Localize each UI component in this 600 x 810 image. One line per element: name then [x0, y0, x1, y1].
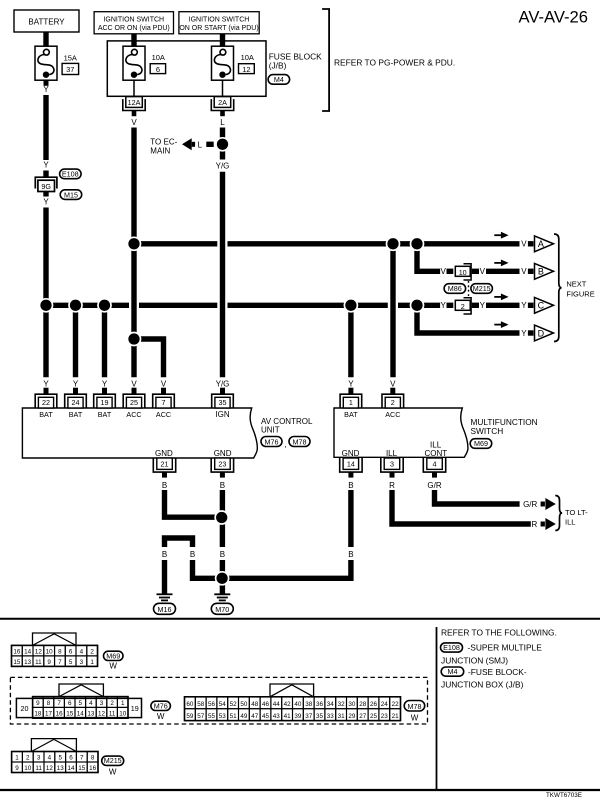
svg-text:Y: Y: [43, 198, 49, 207]
svg-text:2: 2: [90, 648, 94, 655]
svg-text:M78: M78: [408, 702, 422, 711]
svg-text:12: 12: [35, 648, 43, 655]
svg-text:BATTERY: BATTERY: [28, 17, 65, 26]
svg-text:41: 41: [284, 713, 292, 720]
svg-text:2: 2: [110, 700, 114, 707]
svg-text:Y: Y: [441, 301, 447, 310]
svg-text:M69: M69: [474, 439, 488, 448]
svg-text:2: 2: [461, 302, 465, 311]
svg-text:9: 9: [36, 700, 40, 707]
svg-text:44: 44: [273, 701, 281, 708]
svg-text:L: L: [198, 141, 203, 150]
svg-text:46: 46: [262, 701, 270, 708]
svg-text:57: 57: [197, 713, 205, 720]
svg-text:42: 42: [284, 701, 292, 708]
svg-text:NEXT: NEXT: [566, 280, 586, 289]
svg-text:B: B: [162, 550, 167, 559]
svg-text:16: 16: [89, 765, 97, 772]
svg-text:ACC: ACC: [126, 410, 141, 419]
svg-text:16: 16: [56, 711, 64, 718]
svg-text:M4: M4: [448, 667, 458, 676]
svg-text:IGNITION SWITCH: IGNITION SWITCH: [189, 17, 250, 24]
svg-text:W: W: [157, 712, 165, 721]
svg-text:FIGURE: FIGURE: [566, 289, 594, 298]
svg-text:2: 2: [391, 398, 395, 407]
svg-text:39: 39: [294, 713, 302, 720]
svg-text:W: W: [109, 768, 117, 777]
svg-text:22: 22: [392, 701, 400, 708]
svg-text:Y: Y: [43, 85, 49, 94]
svg-text:27: 27: [359, 713, 367, 720]
svg-text:V: V: [161, 379, 167, 388]
svg-text:2: 2: [26, 754, 30, 761]
svg-text:BAT: BAT: [98, 410, 112, 419]
svg-text:ACC: ACC: [156, 410, 171, 419]
svg-text:ACC OR ON (via PDU): ACC OR ON (via PDU): [98, 25, 170, 32]
svg-text:20: 20: [21, 704, 29, 713]
svg-text:12: 12: [46, 765, 54, 772]
svg-text:37: 37: [66, 65, 74, 74]
svg-text:M215: M215: [473, 284, 491, 293]
svg-text:4: 4: [80, 648, 84, 655]
svg-text:19: 19: [131, 704, 139, 713]
svg-text:40: 40: [294, 701, 302, 708]
svg-text:V: V: [390, 379, 396, 388]
svg-text:Y: Y: [43, 379, 49, 388]
svg-text:E108: E108: [443, 643, 460, 652]
svg-text:E108: E108: [62, 170, 79, 179]
svg-text:31: 31: [338, 713, 346, 720]
svg-text:55: 55: [208, 713, 216, 720]
svg-text:(J/B): (J/B): [269, 60, 287, 70]
svg-text:19: 19: [101, 398, 109, 407]
svg-text:B: B: [190, 550, 195, 559]
svg-text:18: 18: [34, 711, 42, 718]
svg-text:8: 8: [91, 754, 95, 761]
svg-text:32: 32: [338, 701, 346, 708]
svg-text:14: 14: [77, 711, 85, 718]
svg-text:8: 8: [58, 648, 62, 655]
svg-text:3: 3: [37, 754, 41, 761]
svg-text:14: 14: [67, 765, 75, 772]
svg-text:B: B: [538, 267, 544, 277]
svg-text:15: 15: [66, 711, 74, 718]
svg-text:R: R: [389, 481, 395, 490]
svg-text:W: W: [109, 662, 117, 671]
svg-text:IGN: IGN: [215, 410, 229, 419]
svg-text:1: 1: [121, 700, 125, 707]
svg-text:Y: Y: [348, 379, 354, 388]
svg-text:35: 35: [316, 713, 324, 720]
svg-text:5: 5: [69, 659, 73, 666]
svg-text:CONT: CONT: [424, 449, 447, 458]
svg-text:12A: 12A: [128, 98, 141, 107]
svg-text:Y: Y: [73, 379, 79, 388]
svg-text:7: 7: [57, 700, 61, 707]
svg-text:13: 13: [87, 711, 95, 718]
svg-text:V: V: [480, 267, 486, 276]
svg-text:BAT: BAT: [39, 410, 53, 419]
svg-text:13: 13: [24, 659, 32, 666]
svg-text:10: 10: [24, 765, 32, 772]
svg-text:48: 48: [251, 701, 259, 708]
svg-text:28: 28: [359, 701, 367, 708]
svg-text:3: 3: [80, 659, 84, 666]
svg-text:R: R: [532, 520, 538, 529]
svg-text:6: 6: [69, 754, 73, 761]
svg-text:M70: M70: [215, 605, 229, 614]
svg-text:M16: M16: [158, 605, 172, 614]
svg-text:M15: M15: [64, 190, 78, 199]
svg-text:IGNITION SWITCH: IGNITION SWITCH: [103, 17, 164, 24]
svg-text:9: 9: [15, 765, 19, 772]
svg-text:5: 5: [58, 754, 62, 761]
svg-text:REFER TO PG-POWER & PDU.: REFER TO PG-POWER & PDU.: [334, 58, 455, 68]
svg-text:5: 5: [79, 700, 83, 707]
svg-text:49: 49: [240, 713, 248, 720]
svg-text:V: V: [521, 267, 527, 276]
svg-text:30: 30: [348, 701, 356, 708]
svg-text:10A: 10A: [152, 53, 165, 62]
svg-text:7: 7: [58, 659, 62, 666]
svg-text:38: 38: [305, 701, 313, 708]
svg-text:V: V: [131, 118, 137, 127]
svg-text:10: 10: [46, 648, 54, 655]
svg-text:JUNCTION (SMJ): JUNCTION (SMJ): [441, 656, 508, 666]
svg-text:11: 11: [35, 765, 42, 772]
svg-text:V: V: [131, 379, 137, 388]
svg-text:3: 3: [100, 700, 104, 707]
svg-text:V: V: [521, 240, 527, 249]
svg-text:25: 25: [130, 398, 138, 407]
svg-text:W: W: [411, 714, 419, 723]
svg-text:59: 59: [186, 713, 194, 720]
svg-text:34: 34: [327, 701, 335, 708]
svg-text:21: 21: [392, 713, 400, 720]
svg-text:15: 15: [13, 659, 21, 666]
svg-text:ILL: ILL: [565, 517, 575, 526]
svg-text:26: 26: [370, 701, 378, 708]
svg-text:TKWT6703E: TKWT6703E: [546, 792, 582, 799]
svg-text:6: 6: [68, 700, 72, 707]
svg-text:GND: GND: [214, 449, 232, 458]
svg-text:-SUPER MULTIPLE: -SUPER MULTIPLE: [468, 643, 543, 653]
svg-text:Y: Y: [480, 301, 486, 310]
svg-text:10: 10: [119, 711, 127, 718]
svg-text:14: 14: [24, 648, 32, 655]
svg-text:13: 13: [57, 765, 65, 772]
svg-text:11: 11: [109, 711, 116, 718]
svg-text:M78: M78: [293, 437, 307, 446]
svg-text:35: 35: [219, 398, 227, 407]
svg-text:60: 60: [186, 701, 194, 708]
svg-text:B: B: [348, 550, 353, 559]
svg-text:7: 7: [80, 754, 84, 761]
svg-text:-FUSE BLOCK-: -FUSE BLOCK-: [468, 667, 527, 677]
svg-text:B: B: [348, 481, 353, 490]
svg-text:11: 11: [35, 659, 42, 666]
svg-text:TO LT-: TO LT-: [565, 508, 588, 517]
svg-text:AV-AV-26: AV-AV-26: [519, 8, 589, 27]
svg-text:M4: M4: [274, 75, 284, 84]
svg-text:BAT: BAT: [69, 410, 83, 419]
svg-text:10A: 10A: [241, 53, 254, 62]
svg-text:3: 3: [390, 460, 394, 469]
svg-text:58: 58: [197, 701, 205, 708]
svg-text:Y: Y: [43, 161, 49, 170]
svg-text:A: A: [538, 239, 544, 249]
svg-text:4: 4: [48, 754, 52, 761]
svg-text:21: 21: [161, 460, 169, 469]
svg-text:6: 6: [156, 65, 160, 74]
svg-text:REFER TO THE FOLLOWING.: REFER TO THE FOLLOWING.: [441, 628, 557, 638]
svg-text:50: 50: [240, 701, 248, 708]
svg-text:JUNCTION BOX (J/B): JUNCTION BOX (J/B): [441, 680, 524, 690]
svg-text:B: B: [220, 550, 225, 559]
svg-text:B: B: [162, 481, 167, 490]
svg-text:15: 15: [78, 765, 86, 772]
svg-text:8: 8: [47, 700, 51, 707]
svg-text:1: 1: [349, 398, 353, 407]
svg-text:V: V: [441, 267, 447, 276]
svg-text:M86: M86: [448, 284, 462, 293]
svg-text:G/R: G/R: [523, 500, 537, 509]
svg-text:SWITCH: SWITCH: [471, 426, 504, 436]
svg-text:52: 52: [230, 701, 238, 708]
svg-text:36: 36: [316, 701, 324, 708]
svg-text:1: 1: [15, 754, 19, 761]
svg-text:53: 53: [219, 713, 227, 720]
svg-text:ILL: ILL: [386, 449, 398, 458]
svg-text:9: 9: [47, 659, 51, 666]
svg-text:M69: M69: [106, 651, 120, 660]
svg-text:47: 47: [251, 713, 259, 720]
svg-text:25: 25: [370, 713, 378, 720]
svg-text:29: 29: [348, 713, 356, 720]
svg-text:G/R: G/R: [427, 481, 441, 490]
svg-text:D: D: [538, 328, 545, 338]
svg-text:17: 17: [45, 711, 53, 718]
svg-text:L: L: [220, 118, 225, 127]
svg-text:GND: GND: [342, 449, 360, 458]
svg-text:Y: Y: [102, 379, 108, 388]
svg-text:B: B: [220, 481, 225, 490]
svg-text:23: 23: [381, 713, 389, 720]
svg-text:Y/G: Y/G: [216, 162, 230, 171]
svg-text:9G: 9G: [41, 182, 51, 191]
svg-text:22: 22: [42, 398, 50, 407]
svg-text:51: 51: [230, 713, 238, 720]
svg-text:7: 7: [162, 398, 166, 407]
svg-text:Y: Y: [521, 301, 527, 310]
svg-text:4: 4: [89, 700, 93, 707]
svg-text:14: 14: [347, 460, 355, 469]
svg-text:Y: Y: [521, 329, 527, 338]
svg-text:12: 12: [242, 65, 250, 74]
svg-text:GND: GND: [155, 449, 173, 458]
svg-text:,: ,: [284, 440, 286, 449]
svg-text:4: 4: [433, 460, 437, 469]
svg-text:M76: M76: [154, 701, 168, 710]
svg-text:54: 54: [219, 701, 227, 708]
svg-text:BAT: BAT: [344, 410, 358, 419]
svg-text:15A: 15A: [64, 53, 77, 62]
svg-text:24: 24: [72, 398, 80, 407]
svg-text:6: 6: [69, 648, 73, 655]
svg-text:C: C: [538, 301, 545, 311]
svg-text:ACC: ACC: [385, 410, 400, 419]
svg-text:M215: M215: [104, 756, 122, 765]
svg-text:12: 12: [98, 711, 106, 718]
svg-text:M76: M76: [265, 437, 279, 446]
svg-text:23: 23: [218, 460, 226, 469]
svg-text:2A: 2A: [218, 98, 227, 107]
svg-text:56: 56: [208, 701, 216, 708]
svg-text:10: 10: [459, 268, 467, 277]
svg-text:1: 1: [90, 659, 94, 666]
svg-text:45: 45: [262, 713, 270, 720]
svg-text:24: 24: [381, 701, 389, 708]
svg-text:33: 33: [327, 713, 335, 720]
svg-text:UNIT: UNIT: [261, 425, 280, 434]
svg-text:16: 16: [13, 648, 21, 655]
svg-text:ON OR START (via PDU): ON OR START (via PDU): [179, 25, 258, 32]
svg-text:37: 37: [305, 713, 313, 720]
svg-text:43: 43: [273, 713, 281, 720]
svg-text:MAIN: MAIN: [150, 146, 170, 155]
svg-text:Y/G: Y/G: [216, 379, 230, 388]
